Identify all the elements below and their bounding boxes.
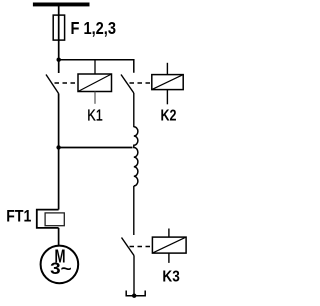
wire: K2 contact to inductor bbox=[133, 93, 135, 127]
motor M 3~ bbox=[41, 246, 79, 284]
node: bottom junction dot bbox=[132, 294, 136, 298]
coil K2 box bbox=[152, 63, 183, 105]
mechanical link dashed K3 bbox=[130, 246, 153, 248]
svg-text:FT1: FT1 bbox=[6, 207, 31, 226]
wire: tap from main line to inductor bbox=[59, 147, 133, 149]
mechanical link dashed K2 bbox=[130, 82, 152, 84]
contact K2 (NO) blade bbox=[121, 75, 134, 94]
svg-text:3~: 3~ bbox=[50, 260, 72, 278]
wire: rail from junction to K2 contact bbox=[59, 60, 134, 73]
terminal bracket at bottom bbox=[126, 291, 145, 296]
svg-text:K1: K1 bbox=[87, 108, 103, 125]
contact K3 (NO) blade bbox=[122, 238, 135, 256]
node: tap junction dot bbox=[56, 145, 60, 149]
coil K1 box bbox=[78, 60, 112, 104]
thermal overload FT1 bbox=[37, 210, 65, 228]
wire: inductor to K3 contact bbox=[133, 186, 135, 235]
supply bus bar bbox=[33, 3, 90, 7]
mechanical link dashed K1 bbox=[55, 82, 79, 84]
wire: FT1 to motor bbox=[58, 228, 60, 246]
svg-text:K3: K3 bbox=[162, 269, 179, 286]
coil K3 box bbox=[152, 229, 186, 263]
svg-text:K2: K2 bbox=[161, 108, 177, 125]
fuse F1,2,3 bbox=[53, 15, 64, 40]
inductor (starting reactor) bbox=[134, 127, 138, 186]
node: junction dot under fuse bbox=[57, 58, 61, 62]
wire: main line below K1 contact to FT1 bbox=[58, 94, 60, 210]
svg-text:F 1,2,3: F 1,2,3 bbox=[71, 18, 117, 38]
contact K1 (NO) blade bbox=[46, 75, 59, 94]
wire: bus bar to junction through fuse bbox=[58, 6, 60, 73]
wire: K3 contact to bottom terminal bbox=[133, 256, 135, 296]
